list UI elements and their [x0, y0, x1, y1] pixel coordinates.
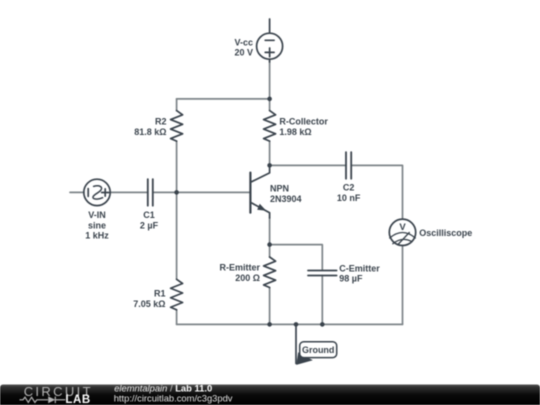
- svg-text:LAB: LAB: [65, 394, 90, 405]
- svg-text:Oscilliscope: Oscilliscope: [419, 228, 472, 238]
- svg-text:7.05 kΩ: 7.05 kΩ: [133, 299, 165, 309]
- svg-text:R-Collector: R-Collector: [279, 117, 328, 127]
- svg-text:C2: C2: [343, 182, 355, 192]
- svg-text:200 Ω: 200 Ω: [235, 273, 260, 283]
- svg-text:1.98 kΩ: 1.98 kΩ: [279, 127, 311, 137]
- svg-text:20 V: 20 V: [234, 48, 253, 58]
- svg-text:10 nF: 10 nF: [337, 193, 361, 203]
- svg-text:C-Emitter: C-Emitter: [339, 263, 380, 273]
- svg-text:V-IN: V-IN: [88, 210, 106, 220]
- svg-text:2 µF: 2 µF: [140, 220, 159, 230]
- svg-text:Ground: Ground: [302, 345, 335, 355]
- svg-text:R1: R1: [154, 289, 166, 299]
- svg-text:2N3904: 2N3904: [270, 194, 302, 204]
- svg-text:http://circuitlab.com/c3g3pdv: http://circuitlab.com/c3g3pdv: [114, 393, 233, 404]
- svg-text:81.8 kΩ: 81.8 kΩ: [134, 127, 166, 137]
- svg-text:1 kHz: 1 kHz: [85, 231, 109, 241]
- svg-text:98 µF: 98 µF: [339, 274, 363, 284]
- svg-text:R-Emitter: R-Emitter: [219, 263, 260, 273]
- svg-text:V-cc: V-cc: [234, 37, 253, 47]
- svg-text:sine: sine: [88, 220, 106, 230]
- svg-text:C1: C1: [143, 210, 155, 220]
- svg-text:R2: R2: [155, 116, 167, 126]
- svg-text:V: V: [399, 222, 406, 233]
- svg-text:NPN: NPN: [270, 184, 289, 194]
